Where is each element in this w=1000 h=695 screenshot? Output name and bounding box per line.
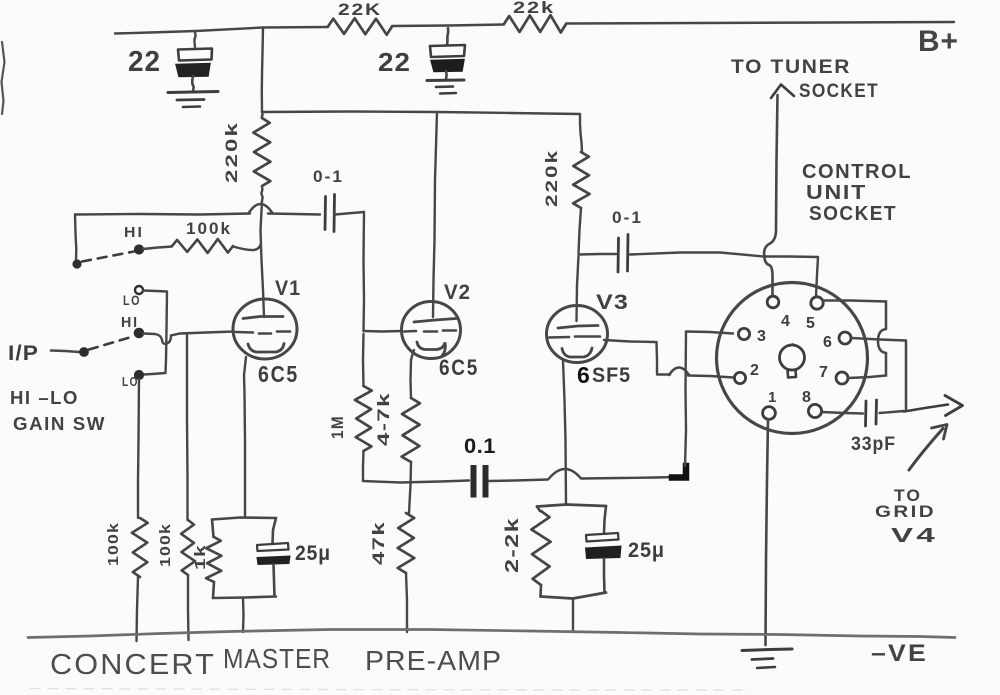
label TO TUNER: [731, 57, 851, 78]
arrow output to grid V4: [904, 396, 963, 416]
svg-text:22: 22: [128, 46, 161, 78]
junction bump over V1 top line: [249, 204, 272, 213]
wire V3 top line: [577, 256, 579, 321]
svg-text:LO: LO: [122, 374, 139, 389]
svg-text:25μ: 25μ: [628, 539, 665, 562]
label V3: [596, 291, 629, 314]
label GAIN SW: [13, 414, 106, 434]
label MASTER: [223, 643, 331, 674]
wire V1 cathode down: [244, 357, 246, 517]
wire box V1 to -VE rail: [242, 598, 245, 632]
label 22K first: [338, 0, 382, 19]
cathode box V3 right edge lower: [603, 559, 606, 593]
wire LO lower down: [138, 379, 139, 518]
svg-text:–VE: –VE: [871, 640, 928, 667]
tube V1 envelope: [233, 299, 297, 359]
svg-text:V3: V3: [596, 291, 629, 314]
switch dot HI upper: [135, 246, 143, 254]
svg-text:CONTROL: CONTROL: [802, 161, 912, 183]
svg-text:HI: HI: [121, 314, 139, 331]
wire riser to C1: [194, 32, 195, 47]
svg-text:220k: 220k: [542, 149, 561, 207]
tube V1 anode bar: [243, 317, 283, 319]
label 47K: [369, 521, 388, 565]
label pin 6: [823, 334, 832, 351]
tube V3 anode bar: [558, 326, 598, 329]
label pin 2: [750, 362, 759, 379]
cathode box V3 top edge: [537, 505, 606, 507]
tube V1 grid dashes: [236, 332, 290, 334]
wire V3 cathode down: [563, 361, 566, 505]
label 2-2K: [502, 517, 522, 573]
faint scan line bottom: [30, 689, 750, 691]
switch dot LO lower: [135, 371, 143, 379]
label V2: [444, 281, 471, 304]
svg-text:SF5: SF5: [592, 364, 631, 387]
label 6SF5 (bold 6): [577, 362, 631, 388]
wire 100K second to rail: [187, 575, 190, 640]
svg-text:4-7k: 4-7k: [374, 392, 393, 446]
wire V2 anode riser: [433, 112, 437, 317]
resistor 4-7K: [402, 398, 420, 462]
dashed switch arm lower: [89, 337, 133, 350]
svg-text:100k: 100k: [157, 523, 174, 567]
wire 1M bottom corner: [362, 451, 365, 481]
tube V2 envelope: [402, 302, 461, 359]
svg-text:TO TUNER: TO TUNER: [731, 57, 851, 78]
tube V1 cathode: [248, 344, 284, 353]
socket pin 4: [767, 296, 779, 308]
wire 1M bottom to 0.1 cap: [363, 481, 469, 483]
wire pin8 to 33pF: [822, 412, 864, 414]
wire bump to pin 2: [688, 376, 734, 378]
svg-text:1k: 1k: [192, 544, 209, 570]
wire V3 grid to pin2 run: [604, 340, 670, 375]
socket pin 6: [839, 332, 851, 344]
label 220K V1: [222, 121, 241, 183]
wire HI mid with curl: [143, 332, 234, 344]
svg-text:47k: 47k: [369, 521, 388, 565]
label 100K first: [105, 522, 122, 566]
svg-text:1M: 1M: [328, 415, 347, 439]
label 22 first: [128, 46, 161, 78]
wire B+ rail middle segment: [392, 25, 504, 27]
svg-text:33pF: 33pF: [851, 434, 896, 455]
wire 47K to -VE rail: [406, 573, 407, 632]
cathode box V1 right edge upper: [273, 518, 277, 543]
capacitor 25u V1 top plate: [257, 543, 289, 551]
label 0-1 second: [612, 208, 643, 227]
arrow up to tuner: [771, 85, 794, 99]
wire LO bracket: [143, 291, 167, 375]
label pin 1: [768, 389, 776, 406]
svg-text:UNIT: UNIT: [806, 182, 867, 204]
scan mark left edge: [2, 42, 5, 114]
wire B+ drop to mid rail: [262, 28, 263, 113]
label 6C5 V1: [258, 361, 299, 387]
label I/P: [8, 342, 39, 365]
label V1: [275, 277, 301, 300]
resistor 22K first (top rail): [328, 18, 392, 35]
tube V2 cathode: [417, 342, 445, 357]
node dot corner left: [73, 260, 80, 267]
label LO upper: [123, 292, 141, 308]
svg-text:0.1: 0.1: [464, 435, 496, 458]
wire mid rail: [262, 112, 580, 115]
svg-text:2-2k: 2-2k: [502, 517, 522, 573]
wire bump to C3: [268, 214, 320, 215]
socket circle: [717, 283, 868, 434]
svg-text:I/P: I/P: [8, 342, 39, 365]
label pin 5: [806, 315, 815, 332]
wire HI branch down: [186, 334, 189, 521]
capacitor 0.1 plates (bold bars): [471, 465, 489, 498]
socket center key: [780, 345, 805, 378]
label B+: [918, 25, 959, 58]
socket pin 3: [738, 328, 749, 339]
svg-text:6C5: 6C5: [258, 361, 299, 387]
svg-text:HI: HI: [124, 224, 144, 241]
label 0-1 first: [313, 167, 344, 186]
socket pin 7: [836, 372, 848, 384]
resistor 2-2K (box left edge): [531, 507, 550, 597]
label UNIT: [806, 182, 867, 204]
svg-text:MASTER: MASTER: [223, 643, 331, 674]
label 6C5 V2: [439, 355, 479, 380]
cathode box V1 right edge lower: [274, 565, 275, 597]
cathode box V3 bottom edge: [541, 593, 607, 599]
capacitor 25u V3 top plate: [586, 533, 619, 542]
tube V3 envelope: [547, 306, 608, 363]
wire 220K V3 bottom lead: [579, 208, 582, 253]
label SOCKET top: [799, 81, 879, 102]
label GRID: [875, 502, 936, 521]
tube V3 grid dashes: [549, 337, 600, 338]
capacitor 22 first bottom plate (solid): [176, 64, 210, 77]
wire bump to corner: [582, 477, 676, 479]
wire corner up to pin3: [685, 332, 686, 467]
label 4-7K: [374, 392, 393, 446]
ground symbol bottom: [742, 649, 792, 668]
capacitor 22 first top plate: [178, 49, 212, 61]
wire V2 cathode exit: [411, 350, 414, 360]
wire 4-7K to 47K: [409, 462, 411, 513]
wire 220K V1 leads: [261, 112, 262, 201]
svg-text:22: 22: [378, 47, 411, 77]
wire C2 to ground: [445, 71, 448, 80]
label pin 7: [819, 364, 828, 381]
svg-text:4: 4: [781, 313, 790, 330]
label PRE-AMP: [365, 645, 502, 676]
svg-text:1: 1: [768, 389, 776, 406]
svg-text:LO: LO: [123, 292, 141, 308]
svg-text:V1: V1: [275, 277, 301, 300]
label 220K V3: [542, 149, 561, 207]
tube V2 anode bar: [414, 319, 456, 323]
wire mid rail corner down: [580, 114, 582, 152]
capacitor 0-1 first plates: [325, 195, 335, 232]
wire pin6 right and down: [852, 338, 907, 409]
svg-text:6: 6: [823, 334, 832, 351]
ground below C1: [168, 92, 218, 108]
switch dot HI mid: [135, 329, 143, 337]
svg-text:0-1: 0-1: [612, 208, 643, 227]
label V4: [891, 525, 938, 547]
label 1M: [328, 415, 347, 439]
wire V2 grid vertical: [362, 212, 365, 331]
cathode box V1 bottom edge: [213, 597, 276, 599]
capacitor 25u V1 bottom plate (solid): [257, 556, 290, 565]
svg-text:2: 2: [750, 362, 759, 379]
bump over pin3 drop wire: [669, 368, 689, 376]
label TO (grid V4): [894, 486, 922, 505]
wire tuner line: [764, 95, 778, 295]
arrow diagonal to grid V4: [909, 425, 947, 471]
capacitor 22 second bottom plate (solid): [431, 60, 464, 72]
tube V2 grid dashes: [404, 331, 456, 332]
wire HI dot to 100K: [143, 247, 172, 250]
svg-text:8: 8: [802, 389, 811, 406]
label HI mid: [121, 314, 139, 331]
wire pin5 to pin7 with hop: [823, 301, 887, 379]
svg-text:HI –LO: HI –LO: [10, 388, 79, 408]
label 22 second: [378, 47, 411, 77]
svg-text:SOCKET: SOCKET: [799, 81, 879, 102]
input dot: [80, 348, 88, 356]
ground below C2: [427, 80, 464, 94]
wire pin1 down to ground: [766, 420, 769, 646]
svg-text:SOCKET: SOCKET: [809, 203, 897, 225]
svg-text:B+: B+: [918, 25, 959, 58]
label pin 3: [757, 328, 766, 345]
cathode box V3 right edge upper: [604, 506, 606, 534]
label 33pF: [851, 434, 896, 455]
label 22k second: [513, 0, 555, 17]
label LO lower: [122, 374, 139, 389]
label SOCKET unit: [809, 203, 897, 225]
svg-text:3: 3: [757, 328, 766, 345]
svg-text:0-1: 0-1: [313, 167, 344, 186]
svg-text:25μ: 25μ: [295, 542, 331, 565]
socket pin 8: [808, 404, 821, 417]
capacitor 0-1 second plates: [618, 235, 628, 273]
svg-text:V2: V2: [444, 281, 471, 304]
label CONCERT: [50, 649, 216, 681]
wire 33pF to output: [880, 411, 905, 413]
svg-text:GRID: GRID: [875, 502, 936, 521]
wire -VE rail: [28, 630, 955, 638]
wire grid node down left: [75, 215, 76, 262]
svg-text:100k: 100k: [186, 219, 232, 238]
svg-text:PRE-AMP: PRE-AMP: [365, 645, 502, 676]
resistor 47K: [398, 513, 415, 573]
label 25u V3: [628, 539, 665, 562]
tube V3 cathode: [562, 348, 592, 357]
svg-text:GAIN SW: GAIN SW: [13, 414, 106, 434]
wire 100K to V1 top line: [233, 243, 261, 250]
thick corner at 0.1 wire end (bold): [672, 466, 686, 478]
wire V3 anode node to C4: [579, 253, 617, 256]
resistor 220K (V1 anode): [253, 118, 270, 186]
wire B+ rail left segment: [115, 27, 328, 34]
label pin 8: [802, 389, 811, 406]
cathode box V1 top edge: [212, 518, 276, 520]
wire C4 to socket: [630, 253, 764, 257]
label 100K second: [157, 523, 174, 567]
resistor 100K first: [132, 518, 148, 577]
wire V2 cathode to 4-7K: [409, 360, 412, 398]
label HI upper: [124, 224, 144, 241]
wire C1 to ground: [192, 76, 193, 91]
label HI-LO: [10, 388, 79, 408]
socket pin 5: [811, 297, 823, 309]
svg-text:220k: 220k: [222, 121, 241, 183]
socket pin 2: [734, 372, 745, 383]
bump over V3 cathode line: [549, 469, 581, 479]
svg-text:V4: V4: [891, 525, 938, 547]
wire I/P lead: [51, 351, 79, 353]
label 1K: [192, 544, 209, 570]
wire C3 to V2 grid drop: [335, 212, 364, 215]
label 25u V1: [295, 542, 331, 565]
wire down to 1M: [362, 334, 365, 386]
wire grid node to left column: [75, 214, 250, 215]
dashed switch arm upper: [82, 252, 134, 262]
resistor 22K second (top rail): [504, 15, 566, 32]
svg-text:6C5: 6C5: [439, 355, 479, 380]
label pin 4: [781, 313, 790, 330]
label -VE: [871, 640, 928, 667]
capacitor 22 second top plate: [430, 45, 465, 57]
capacitor 25u V3 bottom plate (solid): [586, 546, 622, 559]
svg-text:5: 5: [806, 315, 815, 332]
svg-text:100k: 100k: [105, 522, 122, 566]
label CONTROL: [802, 161, 912, 183]
resistor 100K second: [181, 520, 195, 575]
svg-text:CONCERT: CONCERT: [50, 649, 216, 681]
socket pin 1: [763, 407, 776, 420]
resistor 220K (V3 anode): [573, 152, 590, 208]
capacitor 33pF plates: [866, 400, 877, 426]
resistor 1K (in box left edge): [206, 520, 221, 599]
wire B+ rail right segment: [566, 22, 954, 24]
svg-text:22K: 22K: [338, 0, 382, 19]
svg-text:22k: 22k: [513, 0, 555, 17]
wire 0.1 cap to bump: [489, 480, 548, 482]
wire V1 top line (anode into tube): [261, 201, 265, 317]
wire branch to pin 5: [765, 257, 819, 297]
label 0.1 (bold): [464, 435, 496, 458]
wire 100K first to rail: [137, 577, 139, 641]
wire to pin 3: [686, 332, 733, 334]
resistor 1M: [355, 386, 372, 451]
svg-text:7: 7: [819, 364, 828, 381]
wire V2 grid branch: [364, 330, 403, 333]
label 100K grid: [186, 219, 232, 238]
wire riser to C2: [447, 28, 448, 45]
resistor 100K grid: [172, 239, 233, 253]
wire box V3 to -VE rail: [572, 599, 574, 633]
svg-text:6: 6: [577, 362, 590, 388]
switch dot LO upper (open): [135, 286, 143, 294]
